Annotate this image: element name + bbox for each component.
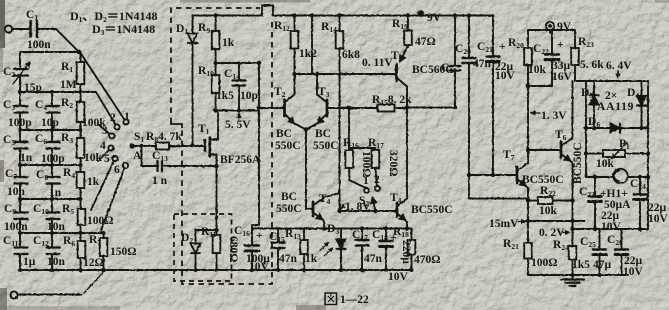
potentiometer P1 <box>586 143 648 159</box>
variable capacitor C2 <box>14 69 28 76</box>
svg-text:100Ω: 100Ω <box>360 151 372 177</box>
resistor R22 horizontal <box>528 197 573 204</box>
junction T6 base <box>526 148 530 152</box>
wire C13 to T1 source line <box>162 165 217 167</box>
junction meter right <box>646 175 650 179</box>
svg-text:47n: 47n <box>364 253 383 265</box>
resistor R14 <box>336 16 344 49</box>
svg-text:1M: 1M <box>60 79 77 91</box>
diode D1 <box>188 16 198 146</box>
bus row3 y130 <box>20 129 81 131</box>
wire input to C1 <box>12 28 28 30</box>
junction R11 top <box>214 228 218 232</box>
svg-text:10V: 10V <box>388 271 409 283</box>
T5 collector lead <box>406 87 408 109</box>
15mV arrow <box>518 221 526 223</box>
capacitor C3 <box>15 106 28 113</box>
svg-text:10k: 10k <box>596 158 615 170</box>
junction T5 base tap <box>292 72 341 76</box>
switch S1 fan wire 1 <box>81 53 127 122</box>
electrolytic C23 <box>589 177 602 229</box>
wire wiper to R8 <box>134 145 156 147</box>
svg-text:10n: 10n <box>47 221 66 233</box>
capacitor C1 <box>31 21 38 37</box>
svg-text:10p: 10p <box>240 90 258 102</box>
resistor R8 <box>156 143 169 150</box>
svg-text:5. 6k: 5. 6k <box>580 59 604 71</box>
y107.5 wire to x455 <box>407 107 455 109</box>
svg-text:1k: 1k <box>87 176 100 188</box>
resistor R15 horizontal <box>349 105 407 112</box>
svg-text:15mV: 15mV <box>489 218 519 230</box>
svg-text:100n: 100n <box>27 39 51 51</box>
5.5V arrow <box>238 114 240 120</box>
wire R8 to T1 gate <box>169 145 205 147</box>
svg-text:100Ω: 100Ω <box>531 257 557 269</box>
svg-text:100n: 100n <box>4 221 28 233</box>
svg-text:10V: 10V <box>249 261 270 273</box>
9V stub <box>420 14 422 16</box>
junction dots top bus right <box>453 14 471 18</box>
svg-text:+: + <box>499 41 506 53</box>
junction dots bottom rail right <box>302 268 414 272</box>
svg-text:10n: 10n <box>7 186 26 198</box>
capacitor C4 <box>47 106 60 113</box>
resistor R17 <box>372 150 380 186</box>
svg-text:1k: 1k <box>305 253 318 265</box>
right rail x80.5 <box>80 52 82 270</box>
T3 collector wire <box>312 16 317 95</box>
x493 vertical rail C21 <box>487 16 500 176</box>
resistor R18 <box>408 229 416 271</box>
svg-text:10p: 10p <box>41 117 59 129</box>
junction x259 <box>257 61 261 110</box>
photodiode D3 <box>337 229 346 271</box>
bus row1 y52 <box>20 51 81 53</box>
svg-text:47n: 47n <box>473 58 492 70</box>
resistor R1 <box>77 62 85 84</box>
diagonal wire to bottom rail <box>84 272 104 293</box>
switch S1 fan wire 6 <box>100 166 126 234</box>
svg-text:1k5: 1k5 <box>216 90 234 102</box>
junction dots y175 <box>467 173 495 177</box>
wire D2 R11 top link <box>196 229 217 231</box>
junction dots P1 <box>584 151 650 155</box>
svg-text:100Ω: 100Ω <box>87 215 113 227</box>
svg-text:320Ω: 320Ω <box>387 150 399 176</box>
junction dots y228.5 <box>322 226 409 230</box>
junction R15 T5 collector <box>405 105 457 109</box>
svg-text:0. 11V: 0. 11V <box>362 57 393 69</box>
transistor T5 PNP <box>397 46 409 87</box>
svg-text:10n: 10n <box>47 256 66 268</box>
capacitor C8 <box>47 177 60 184</box>
y229 line <box>573 228 649 230</box>
transistor T7 <box>517 163 528 275</box>
electrolytic C16 <box>245 246 259 271</box>
resistor R10 <box>212 75 220 93</box>
electrolytic C25 <box>593 229 606 275</box>
electrolytic C18 <box>380 229 393 271</box>
labels: T1 area <box>176 22 298 273</box>
junction T1 source C13 <box>214 164 218 168</box>
node y63 wire right <box>216 62 259 64</box>
bottom line y275 <box>528 274 628 276</box>
diode D5 <box>590 81 599 128</box>
junction bus T3 <box>310 13 314 17</box>
x349 vertical to R16/R17 <box>348 108 350 148</box>
svg-text:6: 6 <box>114 164 120 176</box>
svg-text:550C: 550C <box>313 140 339 152</box>
svg-text:550C: 550C <box>276 203 302 215</box>
resistor R19 <box>404 16 412 46</box>
switch contact 2 <box>114 124 119 129</box>
junction bus R19 <box>406 13 410 17</box>
svg-text:+: + <box>557 39 564 51</box>
node line y110.5 <box>216 110 259 112</box>
svg-text:BC550C: BC550C <box>572 142 584 184</box>
diode D4 <box>637 81 646 128</box>
x648 rail <box>647 81 649 229</box>
resistor R7 <box>100 238 108 256</box>
resistor R2 <box>77 102 85 122</box>
svg-text:R158. 2k: R158. 2k <box>372 94 412 107</box>
capacitor C5 <box>15 142 28 149</box>
switch contact 3 <box>109 133 114 138</box>
emitter junction dot <box>304 127 309 132</box>
switch contact 5 <box>112 156 117 161</box>
svg-text:47n: 47n <box>279 253 298 265</box>
bottom rail y270 <box>20 269 412 271</box>
T1 drain wire <box>217 111 219 140</box>
junction dots y128 <box>584 126 644 130</box>
meter H1 <box>586 169 648 183</box>
1.8V node line y211 <box>340 210 398 212</box>
transistor T3 <box>306 95 327 130</box>
svg-text:2: 2 <box>374 174 380 186</box>
T6 collector wire up <box>572 81 574 138</box>
switch S1 fan wire 2 <box>96 92 117 127</box>
svg-text:9V: 9V <box>427 12 442 24</box>
junction dots y221 <box>526 219 575 223</box>
y175 line to T7 base <box>469 174 517 176</box>
resistor R24 <box>569 246 577 260</box>
T3 base wire <box>327 107 349 109</box>
junction y63 <box>213 61 217 65</box>
svg-text:10k: 10k <box>539 205 558 217</box>
svg-text:100p: 100p <box>8 117 32 129</box>
R7 leads <box>103 233 105 270</box>
svg-text:4: 4 <box>100 140 106 152</box>
svg-text:1. 3V: 1. 3V <box>541 110 567 122</box>
svg-text:3: 3 <box>102 125 108 137</box>
svg-text:12Ω: 12Ω <box>83 257 104 269</box>
supply line y30 right block <box>528 29 575 31</box>
svg-text:1n: 1n <box>20 152 33 164</box>
electrolytic C22 <box>528 30 559 86</box>
node line y228.5 <box>281 228 412 230</box>
transistor T6 <box>561 138 573 275</box>
wire R10 bottom <box>215 93 217 111</box>
svg-text:10V: 10V <box>648 213 669 225</box>
svg-text:680Ω: 680Ω <box>227 236 239 262</box>
svg-text:BC: BC <box>281 191 297 203</box>
resistor R13 <box>300 229 308 271</box>
switch S1 fan wire 5 <box>91 159 115 211</box>
figure caption <box>325 293 369 306</box>
svg-text:AA119: AA119 <box>597 101 634 113</box>
svg-text:1k2: 1k2 <box>299 48 317 60</box>
y128 line with diode D6 <box>586 124 648 133</box>
svg-text:10k: 10k <box>528 64 547 76</box>
junction C24 top <box>638 175 642 179</box>
bus row4 y165 <box>20 164 81 166</box>
switch S1 fan wire 3 <box>99 125 112 136</box>
svg-text:1n: 1n <box>49 187 62 199</box>
T2 base wire <box>259 107 284 109</box>
input terminal <box>5 25 12 32</box>
junction bus R12 <box>292 13 296 17</box>
svg-text:47µ: 47µ <box>593 259 612 271</box>
bus row6 y233 <box>20 232 104 234</box>
svg-text:1k5: 1k5 <box>572 259 590 271</box>
capacitor C7 <box>15 177 28 184</box>
junction dots R22 <box>526 198 575 202</box>
svg-text:BC: BC <box>276 128 292 140</box>
junction R15 left <box>347 106 351 110</box>
x528 rail <box>527 65 529 163</box>
capacitor C6 <box>47 142 60 149</box>
junction dots bottom y275 <box>571 273 602 277</box>
T5 base wire <box>295 73 397 75</box>
svg-text:1k: 1k <box>222 37 235 49</box>
diode D2 <box>191 230 201 270</box>
bus row5 y199 <box>20 198 81 200</box>
resistor R11 <box>213 235 221 270</box>
svg-text:10V: 10V <box>495 70 516 82</box>
resistor R5 <box>78 209 86 225</box>
transistor T2 <box>285 95 307 130</box>
capacitor C10 <box>47 213 60 220</box>
resistor R16 <box>345 150 365 188</box>
junction dots on rails <box>18 90 106 272</box>
svg-text:BF256A: BF256A <box>220 154 261 166</box>
svg-text:47Ω: 47Ω <box>415 36 436 48</box>
x455 vertical with C19 <box>450 16 461 108</box>
junction bus R14 <box>337 13 341 17</box>
resistor R21 <box>524 243 532 259</box>
svg-text:A: A <box>133 150 142 162</box>
svg-text:16V: 16V <box>552 71 573 83</box>
svg-text:1µ: 1µ <box>23 256 36 268</box>
svg-text:550C: 550C <box>275 140 301 152</box>
node A dot <box>139 144 143 148</box>
dashed outer box <box>171 8 272 284</box>
dashed box left edge jog <box>171 121 182 128</box>
y221 line <box>528 220 585 222</box>
wire ground terminal <box>18 294 82 296</box>
svg-text:10k: 10k <box>84 152 103 164</box>
svg-text:15p: 15p <box>24 82 42 94</box>
ground terminal <box>10 291 17 298</box>
junction C22 bottom <box>526 84 530 88</box>
svg-text:1: 1 <box>363 175 369 187</box>
top supply bus y15.5 with hop over dashed edge <box>193 6 494 16</box>
0.2V arrow <box>562 232 570 234</box>
labels: middle section <box>274 12 516 306</box>
1.8V arrow <box>341 203 346 209</box>
labels: left ladder texts <box>3 9 182 269</box>
junction dots y229 <box>570 227 642 231</box>
1.3V arrow <box>531 112 540 114</box>
capacitor C11 <box>15 248 28 255</box>
junction dots y211 <box>337 209 377 213</box>
resistor R3 <box>77 138 85 158</box>
D3 light arrows <box>320 243 333 257</box>
switch S1 fan wire 4 <box>98 148 111 161</box>
switch S2 contact 2 <box>375 186 380 191</box>
top line y81 diode block <box>586 80 648 82</box>
switch contact 1 <box>123 119 128 124</box>
capacitor C14 <box>233 63 246 111</box>
resistor R12 <box>291 16 299 49</box>
junction C23 top <box>593 175 597 179</box>
capacitor C12 <box>47 248 60 255</box>
6.4V arrow <box>617 71 619 78</box>
resistor R20 <box>524 30 532 65</box>
capacitor C13 <box>158 161 163 171</box>
svg-text:100p: 100p <box>41 153 65 165</box>
9V circled terminal <box>546 22 554 33</box>
T6 base wire <box>528 149 561 151</box>
svg-text:470Ω: 470Ω <box>414 254 440 266</box>
junction dots node 5.5V <box>213 108 241 112</box>
inner dashed box <box>174 214 232 281</box>
switch S2 wiper arrow <box>373 198 376 212</box>
wire R9 to R10 <box>215 49 217 75</box>
capacitor C9 <box>15 213 28 220</box>
x469 vertical rail <box>463 16 476 176</box>
JFET T1 <box>205 138 218 157</box>
junction bus R9 <box>213 13 217 17</box>
svg-text:220µ: 220µ <box>400 240 412 264</box>
wire x469 down to y198 feedback line <box>469 175 528 199</box>
9V supply dot <box>418 10 424 16</box>
svg-text:150Ω: 150Ω <box>110 246 136 258</box>
svg-text:1: 1 <box>124 111 130 123</box>
svg-text:10V: 10V <box>623 266 644 278</box>
switch contact 6 <box>123 163 128 168</box>
wire C1 to node <box>37 29 79 52</box>
left rail x20 <box>19 52 21 270</box>
resistor R4 <box>77 172 85 188</box>
svg-text:10V: 10V <box>601 221 622 233</box>
junction dots bottom rail middle <box>194 268 281 272</box>
svg-text:9V: 9V <box>557 21 572 33</box>
svg-text:6k8: 6k8 <box>342 49 360 61</box>
svg-text:BC: BC <box>315 128 331 140</box>
svg-text:5. 5V: 5. 5V <box>225 119 251 131</box>
node junction dot <box>77 50 82 55</box>
T4b collector wire x407 <box>406 108 408 199</box>
electrolytic C26 <box>615 229 628 275</box>
electrolytic C24 <box>634 177 647 229</box>
svg-text:6. 4V: 6. 4V <box>606 60 632 72</box>
transistor T4b <box>397 199 407 229</box>
x586 rail <box>585 81 587 177</box>
T1 source wire <box>216 155 218 236</box>
svg-text:1 n: 1 n <box>152 175 168 187</box>
switch S2 contact 1 <box>364 188 369 193</box>
R14 bottom vertical to 1.8V node <box>339 49 341 212</box>
wire R12 to T2 collector <box>294 49 296 95</box>
labels: right section <box>489 21 669 278</box>
svg-text:0. 2V: 0. 2V <box>539 227 565 239</box>
capacitor C17 <box>356 229 369 271</box>
wire node A down <box>142 146 157 166</box>
svg-text:1—22: 1—22 <box>340 294 369 306</box>
middle rail x52 <box>51 92 53 270</box>
svg-text:R84. 7k: R84. 7k <box>146 131 182 144</box>
resistor R9 <box>212 16 220 50</box>
bus row2 y92 <box>20 91 96 93</box>
ground symbol <box>561 275 584 286</box>
transistor T4a <box>313 193 340 229</box>
switch S1 wiper <box>129 143 134 148</box>
junction D1 bottom <box>190 143 194 147</box>
svg-text:5: 5 <box>104 153 110 165</box>
switch contact 4 <box>108 145 113 150</box>
capacitor C15 47n <box>252 229 285 271</box>
x259 vertical wire <box>252 63 259 246</box>
R16 R17 top link <box>349 147 376 149</box>
resistor R23 <box>571 30 586 81</box>
svg-text:2: 2 <box>110 112 116 124</box>
svg-text:+: + <box>256 230 263 242</box>
common emitter vertical x306 <box>306 130 313 210</box>
svg-text:BC550C: BC550C <box>411 204 453 216</box>
resistor R6 <box>78 241 86 258</box>
